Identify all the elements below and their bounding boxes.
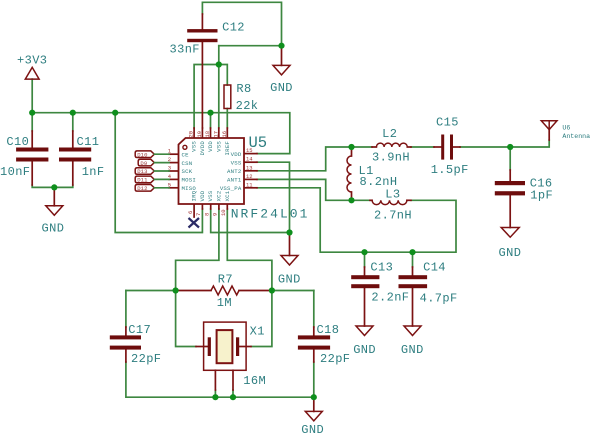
svg-text:1.5pF: 1.5pF xyxy=(431,163,469,177)
svg-text:1M: 1M xyxy=(217,296,232,310)
svg-text:Antenna: Antenna xyxy=(562,133,590,140)
svg-text:7: 7 xyxy=(195,213,202,216)
svg-text:14: 14 xyxy=(246,156,253,163)
svg-text:8: 8 xyxy=(204,213,211,216)
svg-text:SCK: SCK xyxy=(182,168,193,175)
svg-text:15: 15 xyxy=(246,147,253,154)
svg-text:2.7nH: 2.7nH xyxy=(374,208,412,222)
svg-text:C17: C17 xyxy=(128,323,151,337)
svg-text:GND: GND xyxy=(401,343,424,357)
svg-text:3.9nH: 3.9nH xyxy=(372,150,410,164)
svg-text:C18: C18 xyxy=(317,323,340,337)
svg-text:10nF: 10nF xyxy=(0,165,30,179)
svg-text:D13: D13 xyxy=(137,168,147,175)
svg-text:22pF: 22pF xyxy=(131,352,161,366)
svg-text:20: 20 xyxy=(188,131,195,138)
svg-text:11: 11 xyxy=(246,181,253,188)
svg-text:ANT2: ANT2 xyxy=(227,168,242,175)
svg-text:C11: C11 xyxy=(77,135,100,149)
svg-text:D10: D10 xyxy=(137,151,148,158)
svg-text:GND: GND xyxy=(278,272,301,286)
svg-text:VDD: VDD xyxy=(207,141,214,152)
svg-text:GND: GND xyxy=(301,423,324,435)
svg-text:6: 6 xyxy=(187,211,194,214)
svg-text:16M: 16M xyxy=(243,374,266,388)
svg-text:16: 16 xyxy=(221,131,228,138)
svg-text:GND: GND xyxy=(353,343,376,357)
svg-text:9: 9 xyxy=(212,213,219,216)
svg-text:GND: GND xyxy=(42,222,65,236)
svg-text:IREF: IREF xyxy=(224,141,231,156)
svg-text:GND: GND xyxy=(270,81,293,95)
svg-text:L2: L2 xyxy=(382,127,397,141)
svg-text:VDD: VDD xyxy=(231,151,242,158)
svg-text:NRF24L01: NRF24L01 xyxy=(231,206,310,221)
svg-text:R8: R8 xyxy=(236,82,251,96)
svg-text:VDD: VDD xyxy=(199,190,206,201)
svg-text:XC1: XC1 xyxy=(224,190,231,201)
svg-text:13: 13 xyxy=(246,164,253,171)
svg-text:22k: 22k xyxy=(236,99,259,113)
svg-text:33nF: 33nF xyxy=(170,43,200,57)
svg-text:1pF: 1pF xyxy=(530,188,553,202)
svg-text:19: 19 xyxy=(196,131,203,138)
svg-text:3: 3 xyxy=(168,165,171,172)
svg-text:C14: C14 xyxy=(423,260,446,274)
svg-text:C15: C15 xyxy=(436,116,459,130)
svg-text:ANT1: ANT1 xyxy=(227,177,242,184)
svg-text:22pF: 22pF xyxy=(320,352,350,366)
svg-text:D9: D9 xyxy=(140,160,147,167)
svg-text:CE: CE xyxy=(182,151,190,158)
svg-text:GND: GND xyxy=(499,246,522,260)
svg-text:D11: D11 xyxy=(137,177,148,184)
svg-text:X1: X1 xyxy=(250,325,265,339)
svg-text:+3V3: +3V3 xyxy=(17,54,47,68)
svg-text:VSS: VSS xyxy=(207,190,214,201)
svg-text:18: 18 xyxy=(204,131,211,138)
svg-text:L3: L3 xyxy=(385,188,400,202)
svg-text:XC2: XC2 xyxy=(215,190,222,201)
svg-text:10: 10 xyxy=(220,209,227,216)
svg-text:R7: R7 xyxy=(218,273,233,287)
svg-text:DVDD: DVDD xyxy=(199,141,206,156)
svg-text:C13: C13 xyxy=(370,260,393,274)
svg-text:C10: C10 xyxy=(6,135,29,149)
svg-text:VSS: VSS xyxy=(215,141,222,152)
svg-text:4.7pF: 4.7pF xyxy=(420,291,458,305)
svg-text:U6: U6 xyxy=(562,125,570,132)
svg-text:VSS: VSS xyxy=(231,159,242,166)
svg-text:5: 5 xyxy=(168,181,171,188)
svg-text:VSS: VSS xyxy=(191,141,198,152)
svg-text:IRQ: IRQ xyxy=(191,190,198,201)
svg-text:C12: C12 xyxy=(222,21,245,35)
svg-text:2.2nF: 2.2nF xyxy=(371,290,409,304)
svg-text:2: 2 xyxy=(168,156,171,163)
svg-text:MOSI: MOSI xyxy=(182,177,196,184)
svg-text:12: 12 xyxy=(246,173,253,180)
svg-text:D12: D12 xyxy=(137,185,147,192)
svg-text:1nF: 1nF xyxy=(82,165,105,179)
svg-text:17: 17 xyxy=(212,131,219,138)
svg-text:CSN: CSN xyxy=(182,160,193,167)
